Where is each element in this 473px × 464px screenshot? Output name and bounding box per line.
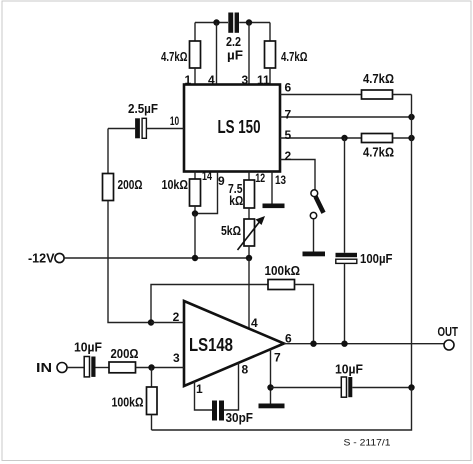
wire IC pin 4: [216, 23, 218, 85]
svg-text:4.7kΩ: 4.7kΩ: [161, 49, 188, 64]
svg-text:2: 2: [285, 149, 292, 163]
wire left branch down from C2: [107, 129, 109, 174]
capacitor C6 10uF (bootstrap): [271, 377, 412, 397]
wire down to -12V rail: [194, 214, 196, 259]
resistor R7 4.7k (pin 6): [362, 90, 393, 99]
svg-text:1: 1: [196, 382, 203, 396]
resistor R10 200ohm (input): [109, 362, 136, 373]
label R5 7.5k value: [228, 181, 243, 208]
svg-text:7: 7: [274, 351, 281, 365]
resistor R3 200ohm (left vertical): [103, 174, 114, 201]
svg-text:LS 150: LS 150: [218, 117, 261, 137]
resistor R5 7.5k (IC pin 12): [244, 172, 255, 220]
svg-text:IN: IN: [36, 360, 52, 375]
svg-text:4.7kΩ: 4.7kΩ: [281, 49, 308, 64]
resistor R9 100k (feedback): [268, 280, 295, 290]
wire op-amp pin 7: [270, 349, 272, 403]
svg-text:10: 10: [170, 114, 180, 128]
resistor R8 4.7k (pin 5): [362, 134, 393, 143]
wire IC pin 2: [280, 160, 315, 190]
terminal OUT: [438, 324, 459, 350]
label C1 2.2uF value: [226, 34, 243, 63]
node junction top-left (pin4 tap): [213, 19, 219, 25]
ground G3 (op-amp pin 7): [259, 404, 285, 409]
wire op-amp pin 8: [224, 363, 239, 410]
svg-text:6: 6: [285, 332, 292, 346]
node junction rail/R6 branch: [246, 255, 252, 261]
node junction feedback/OUT: [310, 341, 316, 347]
svg-text:100kΩ: 100kΩ: [265, 263, 301, 278]
wire OUT line: [284, 343, 444, 345]
ground G1 (pin 13): [263, 204, 285, 209]
svg-text:2: 2: [173, 310, 180, 324]
resistor R1 4.7k (top left, pin 1): [190, 23, 201, 85]
svg-text:LS148: LS148: [189, 335, 233, 355]
svg-text:7: 7: [285, 108, 292, 122]
resistor R11 100k (input shunt): [147, 368, 158, 431]
svg-text:12: 12: [255, 171, 265, 185]
op-amp U2 LS148: [184, 301, 284, 386]
wire top rail: [195, 22, 270, 24]
svg-text:5kΩ: 5kΩ: [221, 223, 241, 238]
wire -12V rail: [64, 257, 249, 259]
svg-text:kΩ: kΩ: [229, 193, 243, 208]
capacitor C5 30pF: [212, 401, 224, 421]
svg-text:4: 4: [251, 316, 258, 330]
terminal IN: [36, 360, 67, 375]
svg-text:3: 3: [173, 351, 180, 365]
svg-text:100kΩ: 100kΩ: [112, 395, 144, 410]
capacitor C4 10uF (input): [67, 357, 109, 377]
wire R8 to right rail: [393, 137, 412, 139]
svg-text:4.7kΩ: 4.7kΩ: [363, 71, 394, 86]
wire op-amp pin2 input: [151, 322, 184, 324]
node junction R4/pin9: [192, 210, 198, 216]
svg-text:µF: µF: [227, 48, 243, 63]
svg-text:10µF: 10µF: [74, 339, 102, 354]
svg-text:14: 14: [202, 169, 212, 183]
wire feedback to output: [295, 285, 314, 344]
capacitor C2 2.5uF: [108, 118, 184, 138]
wire left branch to op-amp pin2 node: [108, 201, 151, 323]
svg-text:10µF: 10µF: [335, 362, 363, 377]
capacitor C1 2.2uF: [228, 13, 239, 33]
node junction pin5-rail: [408, 135, 414, 141]
node junction pin5/C3 branch: [341, 135, 347, 141]
wire op-amp pin 1: [195, 382, 213, 411]
node junction input/R11: [148, 364, 154, 370]
svg-text:5: 5: [285, 128, 292, 142]
wire IC pin 9: [195, 172, 218, 214]
wire IC pin 5: [280, 137, 362, 139]
capacitor C3 100uF: [336, 138, 358, 344]
node junction pin2 node: [148, 319, 154, 325]
svg-text:OUT: OUT: [438, 324, 459, 339]
svg-text:10kΩ: 10kΩ: [162, 177, 189, 192]
svg-text:2.5µF: 2.5µF: [128, 101, 158, 116]
svg-text:200Ω: 200Ω: [111, 346, 139, 361]
ground G2 (switch): [303, 252, 326, 257]
svg-text:8: 8: [242, 363, 249, 377]
node junction top-right (pin3 tap): [246, 19, 252, 25]
wire IC pin 7: [280, 116, 412, 118]
node junction C6/right rail: [408, 384, 414, 390]
switch S1: [310, 190, 323, 252]
wire bottom rail: [152, 388, 412, 431]
svg-text:S - 2117/1: S - 2117/1: [344, 438, 391, 448]
svg-text:4.7kΩ: 4.7kΩ: [363, 145, 394, 160]
wire op-amp pin 4 supply: [248, 258, 250, 329]
wire right rail vertical: [411, 95, 413, 388]
resistor R4 10k (IC pin 14): [190, 172, 201, 214]
svg-text:200Ω: 200Ω: [118, 177, 143, 192]
op-amp U1 LS150: [184, 85, 280, 172]
potentiometer R6 5k: [238, 216, 266, 258]
wire IC pin 3: [248, 23, 250, 85]
node junction pin7/C6 line: [267, 384, 273, 390]
svg-text:30pF: 30pF: [226, 410, 254, 425]
terminal -12V: [28, 251, 64, 266]
wire feedback to pin2 node: [151, 285, 268, 323]
svg-text:13: 13: [275, 173, 286, 187]
node junction rail/R4 branch: [192, 255, 198, 261]
svg-text:6: 6: [285, 81, 292, 95]
svg-text:100µF: 100µF: [360, 251, 393, 266]
wire IC pin 6: [280, 94, 362, 96]
wire R10 to op-amp pin3: [136, 367, 185, 369]
node junction pin7/right rail: [408, 114, 414, 120]
svg-text:-12V: -12V: [28, 251, 55, 266]
node junction C3/OUT: [341, 341, 347, 347]
wire IC pin 13: [271, 172, 273, 204]
resistor R2 4.7k (top right, pin 11): [265, 23, 276, 85]
wire R7 to right rail: [393, 94, 412, 96]
svg-text:9: 9: [218, 174, 225, 188]
